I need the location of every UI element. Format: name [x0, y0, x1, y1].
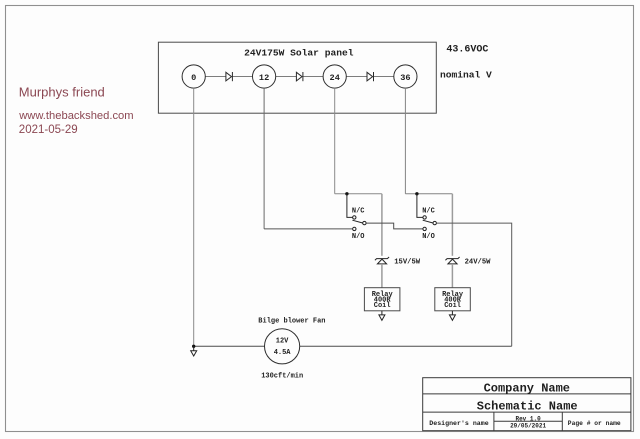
wire: net 36V drop to zener Z2: [451, 194, 453, 256]
motor M1 bilge fan: [265, 329, 300, 364]
svg-text:36: 36: [400, 73, 410, 83]
svg-text:24V/5W: 24V/5W: [465, 258, 492, 266]
svg-text:29/05/2021: 29/05/2021: [510, 423, 546, 430]
svg-text:4.5A: 4.5A: [274, 349, 292, 357]
svg-text:12: 12: [259, 73, 269, 83]
contact K2 pole terminal: [433, 221, 436, 224]
wire: net 36V vertical drop: [404, 88, 406, 194]
ground arrow under coil K2: [449, 311, 455, 321]
diode D2: [296, 72, 303, 81]
wire: K2 pole to fan net: [436, 223, 511, 346]
relay contact K2: [417, 194, 437, 241]
contact K1 pole terminal: [363, 221, 366, 224]
wire: K1 pole to K2 N/O: [366, 223, 423, 229]
svg-text:2021-05-29: 2021-05-29: [19, 124, 78, 136]
relay contact K1: [347, 194, 366, 241]
junction: net 0V to fan net: [192, 345, 195, 348]
junction: net 36V to contact K2: [415, 192, 418, 195]
wire: panel internal segments: [205, 76, 393, 78]
svg-text:Schematic Name: Schematic Name: [477, 399, 578, 413]
wire: Z2 to coil K2: [451, 264, 453, 288]
wire: Z1 to coil K1: [381, 264, 383, 288]
wire: net 12V vertical drop: [263, 88, 265, 229]
svg-text:www.thebackshed.com: www.thebackshed.com: [18, 110, 133, 122]
svg-text:Designer's name: Designer's name: [429, 420, 488, 427]
svg-text:12V: 12V: [276, 338, 289, 346]
wire: K1 N/C feed elbow: [347, 194, 353, 218]
wire: net 24V horizontal run: [335, 193, 382, 195]
svg-text:43.6VOC: 43.6VOC: [446, 44, 488, 55]
svg-text:Coil: Coil: [374, 302, 391, 310]
solar panel PV1 box: [158, 42, 436, 113]
zener Z1 15V/5W: [375, 257, 389, 264]
svg-text:Page # or name: Page # or name: [568, 420, 621, 427]
contact K2 N/C terminal: [423, 216, 426, 219]
svg-text:Bilge blower Fan: Bilge blower Fan: [258, 317, 325, 325]
svg-text:Rev 1.0: Rev 1.0: [515, 415, 541, 422]
svg-text:Coil: Coil: [444, 302, 461, 310]
svg-text:Company Name: Company Name: [484, 381, 570, 395]
wire: fan net left segment: [194, 345, 265, 347]
wire: fan net right segment: [300, 345, 512, 347]
zener Z2 24V/5W: [445, 257, 459, 264]
wire: net 24V drop to zener Z1: [381, 194, 383, 256]
contact K1 N/O terminal: [353, 227, 356, 230]
node tap 36: [394, 65, 417, 88]
wire: net 24V vertical drop: [334, 88, 336, 194]
contact K1 N/C terminal: [353, 216, 356, 219]
wire: net 36V horizontal run: [405, 193, 452, 195]
ground arrow under coil K1: [379, 311, 385, 321]
contact K2 N/O terminal: [423, 227, 426, 230]
svg-text:nominal V: nominal V: [440, 69, 492, 80]
svg-text:N/C: N/C: [352, 208, 365, 216]
wire: K2 N/C feed elbow: [417, 194, 423, 218]
diode D3: [367, 72, 374, 81]
svg-text:24: 24: [330, 73, 340, 83]
svg-text:0: 0: [191, 73, 196, 83]
svg-text:130cft/min: 130cft/min: [261, 372, 303, 380]
junction: net 24V to contact K1: [345, 192, 348, 195]
contact K2 arm: [423, 220, 433, 223]
ground arrow at 0V rail: [191, 346, 197, 356]
svg-text:15V/5W: 15V/5W: [394, 258, 421, 266]
node tap 24: [323, 65, 346, 88]
svg-text:N/O: N/O: [422, 233, 435, 241]
svg-text:N/O: N/O: [352, 233, 365, 241]
relay coil K1: [364, 288, 400, 311]
node tap 0: [182, 65, 205, 88]
contact K1 arm: [352, 220, 362, 223]
title block frame: [423, 378, 631, 431]
relay coil K2: [435, 288, 471, 311]
diode D1: [226, 72, 233, 81]
node tap 12: [253, 65, 276, 88]
wire: net 0V vertical drop: [193, 88, 195, 346]
svg-text:Murphys friend: Murphys friend: [19, 85, 105, 100]
svg-text:24V175W Solar panel: 24V175W Solar panel: [244, 47, 354, 58]
svg-text:N/C: N/C: [422, 208, 435, 216]
wire: net 12V to K1 N/O: [264, 228, 353, 230]
